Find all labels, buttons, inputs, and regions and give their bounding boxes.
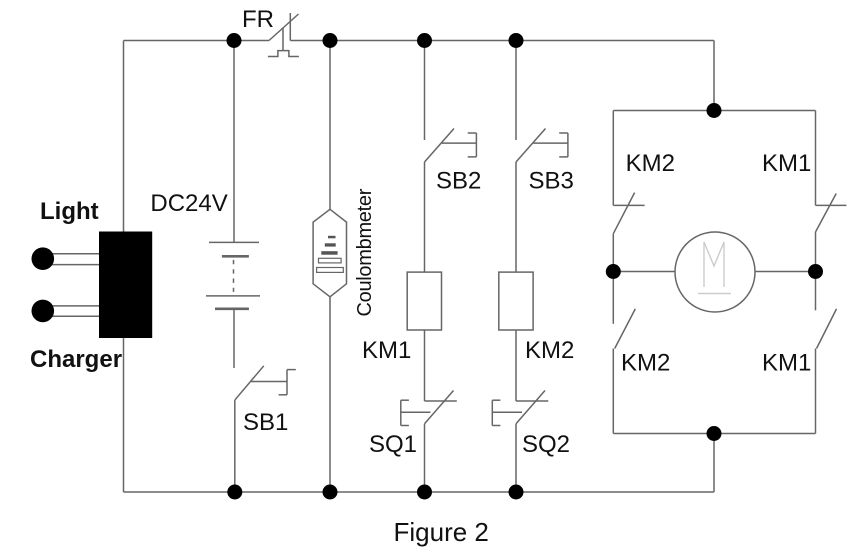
svg-text:KM1: KM1 [762,150,811,177]
contact KM2 top-left (NC) [613,111,644,272]
charger block [99,232,152,339]
motor M letter [698,242,731,294]
svg-text:SB3: SB3 [529,168,574,195]
node bottom bus / SQ1 [417,485,432,500]
node bridge top [707,103,722,118]
wire coulombmeter branch upper [329,41,331,210]
node top bus / battery [227,33,242,48]
wire bridge top rail [613,110,815,112]
svg-text:Charger: Charger [30,346,122,373]
svg-text:KM2: KM2 [525,337,574,364]
svg-text:DC24V: DC24V [150,190,227,217]
wire top bus right segment [290,40,714,42]
svg-text:KM1: KM1 [362,337,411,364]
push button SB3 [516,129,568,163]
wire battery to SB1 [233,309,235,368]
wire motor left [613,271,675,273]
wire SQ1 to bottom bus [424,424,426,492]
node bottom bus / SQ2 [509,485,524,500]
wire SB1 to bottom bus [234,400,236,492]
svg-text:KM2: KM2 [621,350,670,377]
contact KM1 top-right (NC) [816,111,847,272]
coil KM2 [499,272,533,330]
node top bus / coulombmeter [323,33,338,48]
wire battery branch upper [233,41,235,243]
svg-text:Coulombmeter: Coulombmeter [354,188,376,316]
wire top bus left segment [124,40,270,42]
terminal plug bottom [32,300,55,323]
wire bridge bottom rail [613,433,815,435]
wire coulombmeter to bottom bus [329,297,331,492]
wire bottom bus [124,491,715,493]
motor M circle [675,232,755,312]
svg-text:SQ1: SQ1 [369,431,417,458]
node bottom bus / coulombmeter [323,485,338,500]
wire SB2 branch upper [424,41,426,141]
svg-text:SB2: SB2 [436,168,481,195]
limit switch SQ2 [492,391,548,426]
coulombmeter body [313,209,346,296]
contact KM2 bottom-left (NO) [613,272,635,434]
wire motor right [755,271,816,273]
contact KM1 bottom-right (NO) [816,272,837,434]
wire bridge feed top [713,41,715,111]
wire coil KM2 to SQ2 [515,330,517,401]
coil KM1 [407,272,441,330]
svg-text:KM2: KM2 [626,150,675,177]
svg-text:Figure 2: Figure 2 [394,517,489,547]
svg-text:SQ2: SQ2 [522,431,570,458]
svg-text:Light: Light [40,198,99,225]
svg-text:FR: FR [242,6,274,33]
charger terminal leads [50,254,99,317]
node bridge bottom [707,426,722,441]
node top bus / SB2 [417,33,432,48]
wire SB3 branch upper [515,41,517,141]
thermal relay contact FR [268,13,299,57]
wire SQ2 to bottom bus [515,424,517,492]
svg-text:SB1: SB1 [243,409,288,436]
wire SB3 to coil KM2 [515,162,517,272]
terminal plug top [32,247,55,270]
node bottom bus / battery [227,485,242,500]
push button SB2 [425,129,477,163]
wire bridge feed bottom [713,434,715,493]
wire left rail [123,41,125,493]
svg-text:KM1: KM1 [762,350,811,377]
push button SB1 [235,366,296,400]
battery DC24V [206,242,260,308]
limit switch SQ1 [401,391,457,426]
node top bus / SB3 [509,33,524,48]
node bridge mid-right [808,264,823,279]
wire SB2 to coil KM1 [424,162,426,272]
wire coil KM1 to SQ1 [424,330,426,401]
node bridge mid-left [606,264,621,279]
